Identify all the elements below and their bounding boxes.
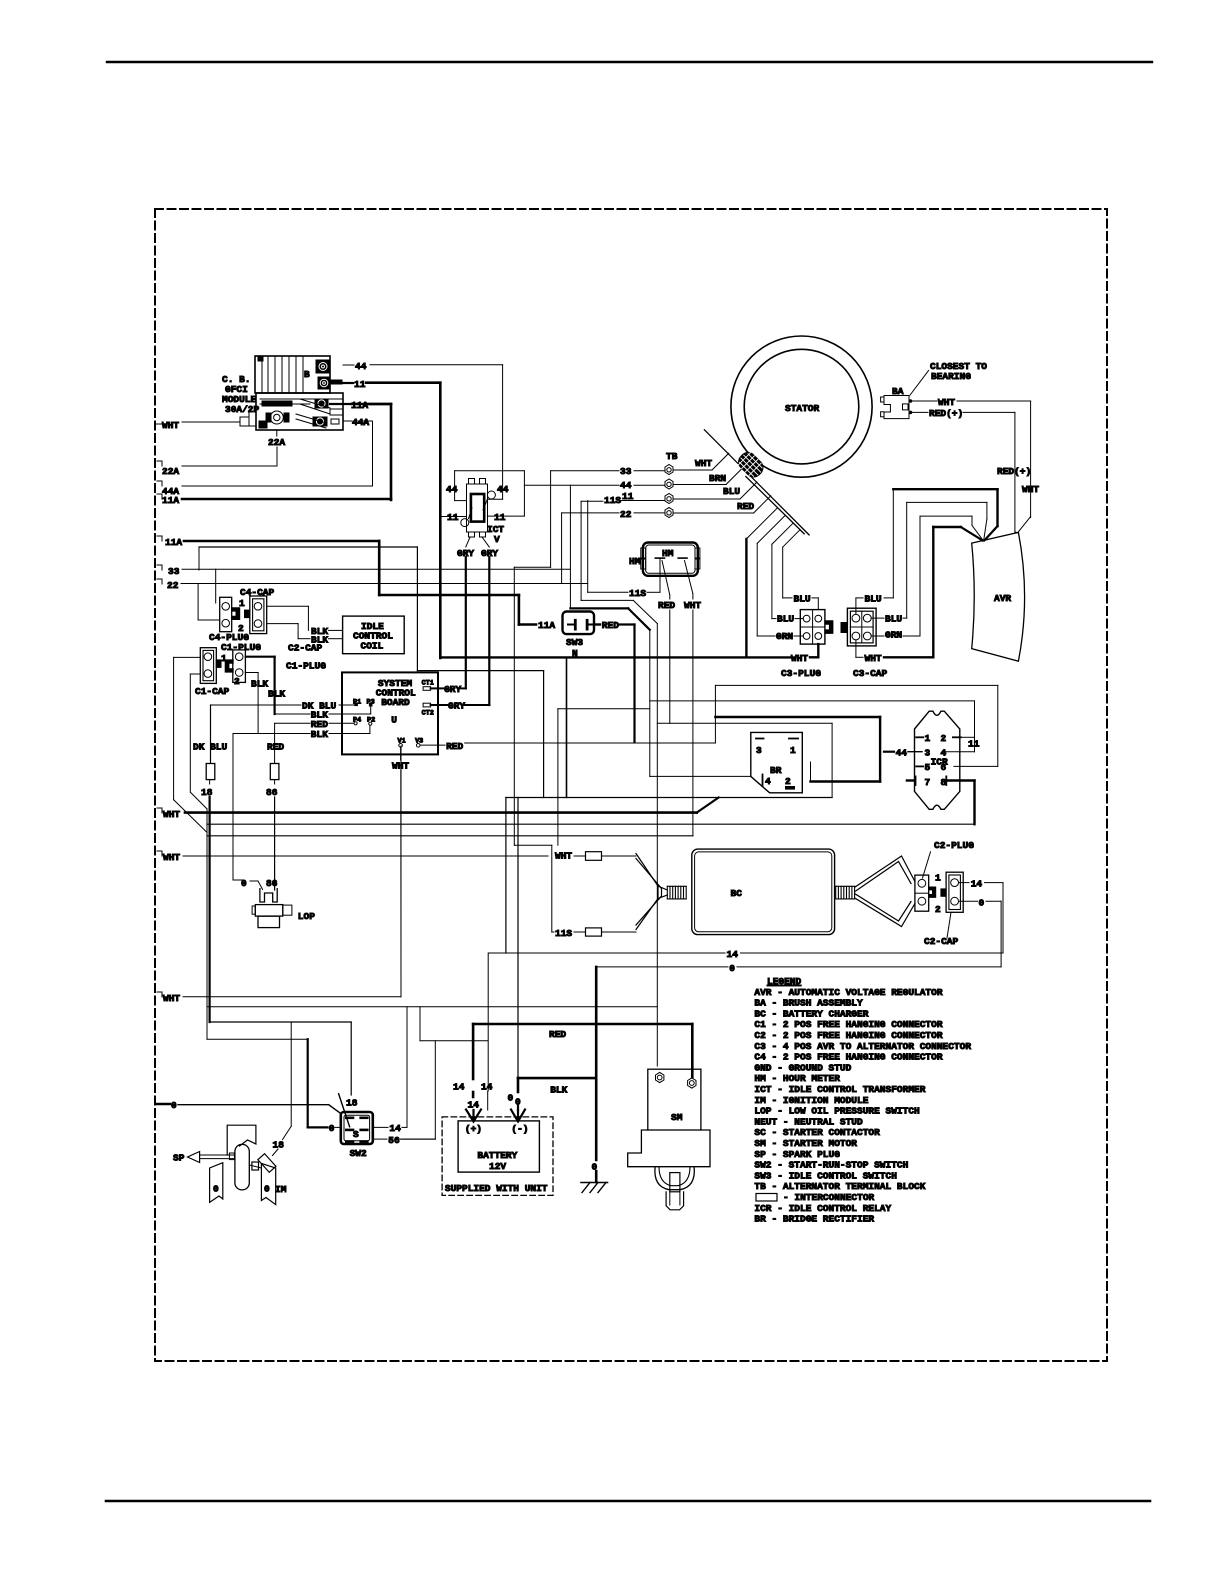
svg-text:1: 1 <box>935 873 941 884</box>
svg-text:C2 - 2 POS FREE HANGING CONNEC: C2 - 2 POS FREE HANGING CONNECTOR <box>754 1030 942 1041</box>
svg-text:WHT: WHT <box>163 852 180 863</box>
svg-text:BLU: BLU <box>885 614 902 625</box>
svg-text:86: 86 <box>266 878 278 889</box>
svg-text:SM: SM <box>671 1112 683 1123</box>
svg-text:TB - ALTERNATOR TERMINAL BLOCK: TB - ALTERNATOR TERMINAL BLOCK <box>754 1181 925 1192</box>
svg-text:SP - SPARK PLUG: SP - SPARK PLUG <box>754 1149 840 1160</box>
svg-text:14: 14 <box>468 1100 480 1111</box>
svg-text:11S: 11S <box>629 588 646 599</box>
svg-text:SW2: SW2 <box>350 1148 367 1159</box>
svg-text:BATTERY: BATTERY <box>477 1150 517 1161</box>
svg-text:SW2 - START-RUN-STOP SWITCH: SW2 - START-RUN-STOP SWITCH <box>754 1160 908 1171</box>
svg-text:WHT: WHT <box>938 397 955 408</box>
svg-text:RED: RED <box>446 741 463 752</box>
svg-text:0: 0 <box>508 1093 514 1104</box>
svg-text:WHT: WHT <box>865 653 882 664</box>
svg-text:STATOR: STATOR <box>785 403 820 414</box>
svg-text:WHT: WHT <box>791 653 808 664</box>
svg-text:S: S <box>353 1129 359 1140</box>
svg-text:IM - IGNITION MODULE: IM - IGNITION MODULE <box>754 1095 868 1106</box>
svg-text:NEUT - NEUTRAL STUD: NEUT - NEUTRAL STUD <box>754 1116 863 1127</box>
svg-text:11A: 11A <box>538 620 555 631</box>
svg-text:44: 44 <box>896 748 908 759</box>
svg-text:TB: TB <box>666 451 678 462</box>
svg-text:GRN: GRN <box>776 631 793 642</box>
svg-text:22A: 22A <box>268 437 285 448</box>
svg-text:86: 86 <box>266 787 278 798</box>
svg-text:30A/2P: 30A/2P <box>225 404 260 415</box>
svg-text:0: 0 <box>264 1184 270 1195</box>
svg-text:14: 14 <box>481 1082 493 1093</box>
svg-text:RED: RED <box>549 1029 566 1040</box>
svg-text:(-): (-) <box>511 1124 528 1135</box>
svg-text:2: 2 <box>234 676 240 687</box>
svg-text:BOARD: BOARD <box>381 697 410 708</box>
svg-text:SC - STARTER CONTACTOR: SC - STARTER CONTACTOR <box>754 1127 880 1138</box>
svg-text:0: 0 <box>213 1184 219 1195</box>
svg-text:C2-PLUG: C2-PLUG <box>934 840 974 851</box>
svg-text:11: 11 <box>968 739 980 750</box>
svg-text:LOP - LOW OIL PRESSURE SWITCH: LOP - LOW OIL PRESSURE SWITCH <box>754 1106 920 1117</box>
svg-text:5: 5 <box>925 762 931 773</box>
svg-text:18: 18 <box>346 1098 358 1109</box>
svg-text:RED: RED <box>737 501 754 512</box>
svg-text:22: 22 <box>167 580 179 591</box>
svg-text:33: 33 <box>168 566 180 577</box>
svg-text:44: 44 <box>620 480 632 491</box>
svg-text:C2-CAP: C2-CAP <box>924 936 959 947</box>
svg-text:CT2: CT2 <box>422 710 434 718</box>
svg-text:P2: P2 <box>367 717 375 725</box>
svg-text:22A: 22A <box>162 466 179 477</box>
svg-text:22: 22 <box>620 509 632 520</box>
svg-text:3: 3 <box>756 745 762 756</box>
svg-text:C1 - 2 POS FREE HANGING CONNEC: C1 - 2 POS FREE HANGING CONNECTOR <box>754 1019 942 1030</box>
svg-text:LOP: LOP <box>298 911 315 922</box>
svg-text:18: 18 <box>201 787 213 798</box>
svg-text:BLK: BLK <box>311 729 328 740</box>
svg-text:WHT: WHT <box>162 420 179 431</box>
svg-text:ICT - IDLE CONTROL TRANSFORMER: ICT - IDLE CONTROL TRANSFORMER <box>754 1084 925 1095</box>
svg-text:C1-PLUG: C1-PLUG <box>221 642 261 653</box>
svg-text:B: B <box>304 369 310 380</box>
svg-text:14: 14 <box>389 1123 401 1134</box>
svg-text:BLK: BLK <box>251 679 268 690</box>
svg-text:GRY: GRY <box>448 701 465 712</box>
svg-text:2: 2 <box>935 904 941 915</box>
svg-text:IM: IM <box>275 1184 287 1195</box>
svg-text:C2-CAP: C2-CAP <box>288 643 323 654</box>
svg-text:WHT: WHT <box>163 993 180 1004</box>
svg-text:AVR - AUTOMATIC VOLTAGE REGULA: AVR - AUTOMATIC VOLTAGE REGULATOR <box>754 987 942 998</box>
svg-text:C3 - 4 POS AVR TO ALTERNATOR C: C3 - 4 POS AVR TO ALTERNATOR CONNECTOR <box>754 1041 971 1052</box>
svg-text:0: 0 <box>241 878 247 889</box>
svg-text:GRY: GRY <box>444 684 461 695</box>
svg-text:SW3: SW3 <box>566 637 583 648</box>
svg-text:6: 6 <box>941 762 947 773</box>
svg-text:WHT: WHT <box>684 600 701 611</box>
svg-text:11A: 11A <box>351 400 368 411</box>
svg-text:11A: 11A <box>162 495 179 506</box>
svg-text:V: V <box>494 534 500 545</box>
svg-text:- INTERCONNECTOR: - INTERCONNECTOR <box>783 1192 875 1203</box>
svg-text:11S: 11S <box>604 495 621 506</box>
svg-text:0: 0 <box>979 898 985 909</box>
svg-text:GND - GROUND STUD: GND - GROUND STUD <box>754 1062 851 1073</box>
svg-text:11S: 11S <box>555 928 572 939</box>
svg-text:RED: RED <box>658 600 675 611</box>
svg-text:SM - STARTER MOTOR: SM - STARTER MOTOR <box>754 1138 857 1149</box>
svg-text:RED: RED <box>267 742 284 753</box>
svg-text:LEGEND: LEGEND <box>767 976 802 987</box>
svg-text:1: 1 <box>925 733 931 744</box>
svg-text:11: 11 <box>494 512 506 523</box>
svg-text:56: 56 <box>388 1135 400 1146</box>
svg-text:C1-CAP: C1-CAP <box>195 686 230 697</box>
svg-text:BR: BR <box>770 765 782 776</box>
svg-text:11A: 11A <box>165 537 182 548</box>
svg-text:3: 3 <box>925 748 931 759</box>
svg-text:44A: 44A <box>352 417 369 428</box>
svg-text:RED(+): RED(+) <box>929 408 963 419</box>
svg-text:12V: 12V <box>489 1161 506 1172</box>
svg-text:ICR - IDLE CONTROL RELAY: ICR - IDLE CONTROL RELAY <box>754 1203 891 1214</box>
svg-text:0: 0 <box>329 1123 335 1134</box>
svg-text:44: 44 <box>355 361 367 372</box>
svg-text:14: 14 <box>727 949 739 960</box>
svg-text:0: 0 <box>729 963 735 974</box>
svg-text:BR - BRIDGE RECTIFIER: BR - BRIDGE RECTIFIER <box>754 1214 874 1225</box>
svg-text:C3-PLUG: C3-PLUG <box>781 668 821 679</box>
svg-text:U: U <box>391 715 397 726</box>
svg-text:HM: HM <box>629 556 641 567</box>
svg-text:C4 - 2 POS FREE HANGING CONNEC: C4 - 2 POS FREE HANGING CONNECTOR <box>754 1052 942 1063</box>
svg-text:WHT: WHT <box>555 851 572 862</box>
svg-text:BEARING: BEARING <box>931 371 971 382</box>
svg-text:GRN: GRN <box>885 630 902 641</box>
svg-text:0: 0 <box>171 1100 177 1111</box>
svg-text:44: 44 <box>446 484 458 495</box>
svg-text:BLU: BLU <box>794 594 811 605</box>
svg-text:SP: SP <box>173 1153 185 1164</box>
svg-text:AVR: AVR <box>994 593 1011 604</box>
svg-text:HM - HOUR METER: HM - HOUR METER <box>754 1073 840 1084</box>
svg-text:BC: BC <box>731 888 743 899</box>
svg-text:7: 7 <box>925 777 931 788</box>
svg-text:BLU: BLU <box>777 614 794 625</box>
svg-text:14: 14 <box>453 1082 465 1093</box>
svg-text:4: 4 <box>765 776 771 787</box>
svg-text:11: 11 <box>447 512 459 523</box>
svg-text:C1-PLUG: C1-PLUG <box>286 661 326 672</box>
svg-text:WHT: WHT <box>1022 484 1039 495</box>
svg-text:RED(+): RED(+) <box>997 466 1031 477</box>
svg-text:RED: RED <box>602 620 619 631</box>
svg-text:WHT: WHT <box>695 458 712 469</box>
svg-text:44: 44 <box>497 484 509 495</box>
svg-text:2: 2 <box>941 733 947 744</box>
svg-text:C3-CAP: C3-CAP <box>853 668 888 679</box>
svg-text:BC - BATTERY CHARGER: BC - BATTERY CHARGER <box>754 1008 868 1019</box>
svg-text:BLU: BLU <box>865 594 882 605</box>
svg-text:BLK: BLK <box>550 1085 567 1096</box>
svg-text:BLK: BLK <box>268 689 285 700</box>
svg-text:2: 2 <box>785 776 791 787</box>
svg-text:33: 33 <box>620 466 632 477</box>
svg-text:BLU: BLU <box>723 486 740 497</box>
svg-text:COIL: COIL <box>361 641 384 652</box>
svg-text:SW3 - IDLE CONTROL SWITCH: SW3 - IDLE CONTROL SWITCH <box>754 1170 897 1181</box>
svg-text:SUPPLIED WITH UNIT: SUPPLIED WITH UNIT <box>445 1183 548 1194</box>
svg-text:1: 1 <box>790 745 796 756</box>
svg-text:WHT: WHT <box>163 809 180 820</box>
svg-text:14: 14 <box>971 879 983 890</box>
svg-text:11: 11 <box>354 379 366 390</box>
svg-text:BRN: BRN <box>709 473 726 484</box>
svg-text:(+): (+) <box>465 1124 482 1135</box>
svg-text:BA - BRUSH ASSEMBLY: BA - BRUSH ASSEMBLY <box>754 998 863 1009</box>
